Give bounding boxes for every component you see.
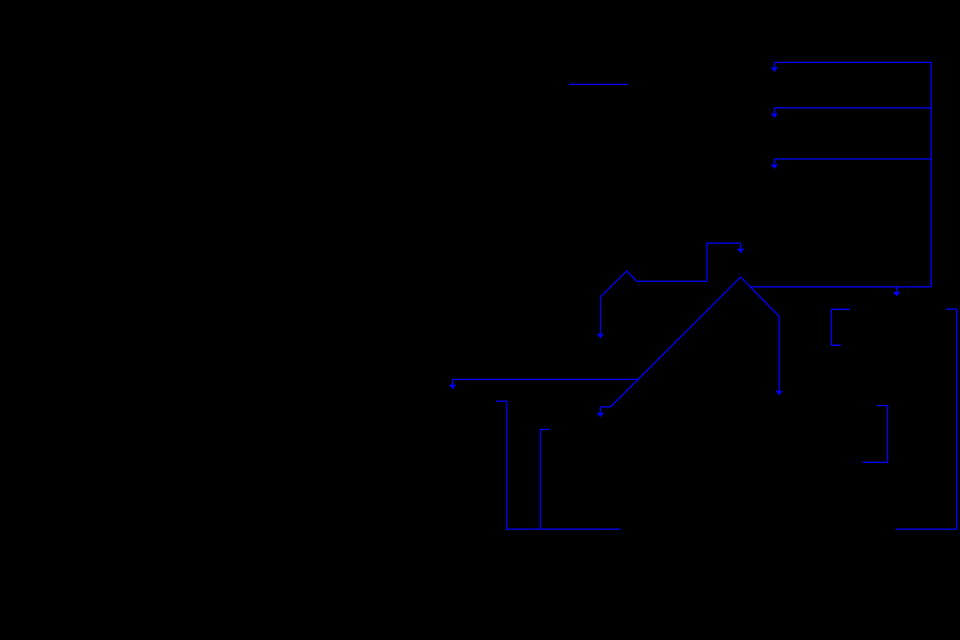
- wire W12 inner vertical with stub: [540, 429, 550, 529]
- wire W7 zigzag net upper run: [600, 243, 740, 297]
- wire W9 long middle horizontal: [453, 378, 639, 380]
- wire W10 stub at end of diagonal: [600, 406, 610, 408]
- wire W5 right vertical bus: [930, 62, 932, 287]
- wire W8a diagonal from peak down-left: [610, 277, 740, 407]
- wire W15 right tall outline: [896, 309, 957, 529]
- arrow A8 arrowhead at bottom of right vertical: [776, 391, 783, 396]
- wire W11 left component outline: [496, 401, 621, 529]
- wire W1 top middle short horizontal: [569, 83, 628, 85]
- wire W13 small left bracket component: [831, 309, 850, 345]
- arrow A4 down-arrow stub on W6: [893, 287, 900, 297]
- wire W4 bus branch 3: [774, 158, 931, 160]
- arrow A7 down-arrow at left end of W9: [449, 379, 456, 389]
- wire W14 small right bracket component: [863, 406, 888, 463]
- arrow A2 down-arrow at left end of W3: [771, 108, 778, 118]
- wire W2 top bus branch 1: [774, 61, 931, 63]
- wire W3 bus branch 2: [774, 107, 931, 109]
- arrow A1 down-arrow at left end of W2: [771, 62, 778, 72]
- arrow A5 down-arrow at right end of zigzag: [737, 243, 744, 253]
- wire W8b diagonal from peak down-right then vertical: [741, 277, 780, 391]
- wire W6 horizontal from diagonal to bus: [750, 286, 931, 288]
- arrow A3 down-arrow at left end of W4: [771, 159, 778, 169]
- wire W7b zigzag vertical drop: [599, 297, 601, 334]
- arrow A6 arrowhead at bottom of zigzag drop: [597, 334, 604, 339]
- arrow A9 down-arrow under diagonal end: [597, 407, 604, 417]
